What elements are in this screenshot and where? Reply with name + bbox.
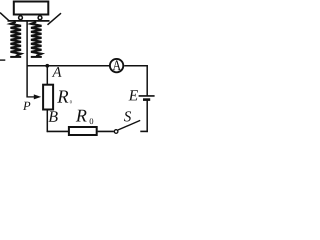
spring left — [11, 22, 22, 56]
platform right rim — [48, 13, 62, 25]
battery negative plate (short thick) — [143, 98, 150, 101]
label B (terminal) — [48, 111, 57, 122]
label P (wiper) — [23, 102, 30, 110]
resistor R0 (fixed) — [69, 127, 97, 135]
spring right — [31, 22, 42, 56]
label E (battery) — [129, 90, 138, 100]
wire: right vertical lower — [146, 101, 148, 133]
wire: ammeter to right corner — [124, 65, 148, 67]
rheostat R0 (vertical box) — [43, 85, 53, 110]
label R (fixed resistor) — [76, 110, 87, 122]
wire: switch fixed contact stub — [140, 130, 148, 132]
wire: junction to rheostat top (terminal A) — [46, 65, 48, 85]
label R (rheostat) — [57, 90, 68, 102]
label A (terminal) — [52, 67, 62, 77]
battery positive plate (long thin) — [139, 95, 155, 97]
switch lever S — [118, 120, 140, 130]
wire: resistor R0 to switch — [98, 130, 114, 132]
label 0 subscript (fixed resistor) — [90, 118, 94, 124]
wire: wiper horizontal — [27, 96, 36, 98]
wire: rheostat bottom (terminal B) to corner — [46, 110, 48, 132]
wire: push rod from platform down to wiper — [26, 21, 28, 98]
cart wheel right — [38, 16, 42, 20]
spring right anchor — [31, 56, 42, 58]
label R subscript 0 (rheostat) — [70, 100, 72, 103]
wire: right vertical upper — [146, 65, 148, 96]
wiper arrow P — [34, 94, 41, 99]
label S (switch) — [124, 111, 131, 121]
cart box — [14, 2, 49, 15]
wall mark at left edge — [0, 59, 5, 61]
spring left anchor — [10, 56, 21, 58]
wire: main horizontal top — [27, 65, 110, 67]
platform — [8, 20, 50, 22]
cart wheel left — [19, 16, 23, 20]
ammeter — [110, 59, 123, 72]
junction node dot — [45, 64, 49, 68]
ammeter letter A — [113, 60, 121, 70]
wire: bottom left to resistor R0 — [47, 130, 69, 132]
platform left rim — [0, 13, 9, 21]
switch pivot circle — [114, 130, 118, 134]
